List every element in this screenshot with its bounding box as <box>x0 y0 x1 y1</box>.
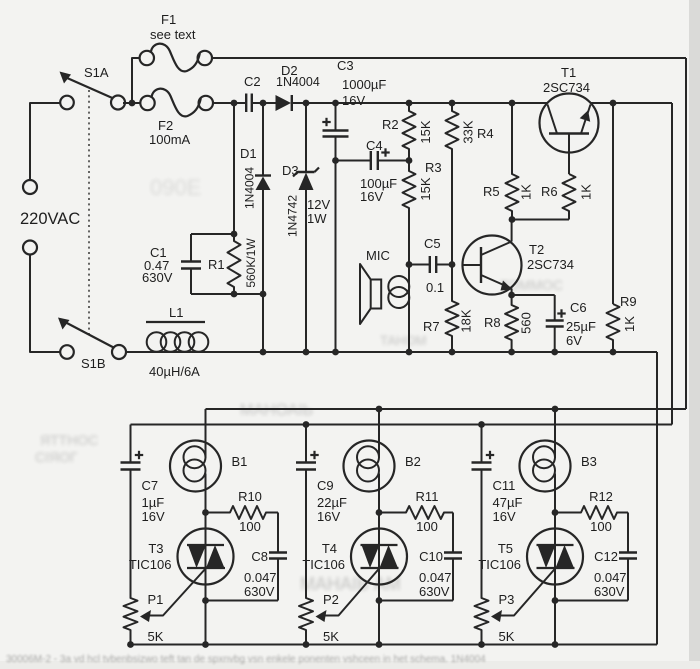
node junction <box>552 641 559 648</box>
microphone MIC speaker symbol <box>360 264 371 324</box>
svg-text:30006M-2 - 3a vd hcl tvbenbsiz: 30006M-2 - 3a vd hcl tvbenbsizwo teft ta… <box>6 654 486 665</box>
svg-text:T3: T3 <box>148 541 163 556</box>
svg-text:P2: P2 <box>323 592 339 607</box>
node junction <box>129 100 136 107</box>
svg-text:1K: 1K <box>579 184 594 200</box>
node junction <box>303 100 310 107</box>
svg-text:see text: see text <box>150 27 196 42</box>
resistor R2 <box>403 103 416 161</box>
node junction <box>376 641 383 648</box>
svg-text:0.047: 0.047 <box>244 570 277 585</box>
capacitor C1 <box>190 234 192 262</box>
svg-text:T4: T4 <box>322 541 337 556</box>
svg-text:R8: R8 <box>484 315 501 330</box>
node junction <box>231 100 238 107</box>
wire <box>130 470 132 598</box>
pot element <box>299 597 313 645</box>
resistor R7 <box>446 265 459 353</box>
svg-text:R11: R11 <box>416 489 439 504</box>
wire <box>262 190 264 352</box>
svg-text:B3: B3 <box>581 454 597 469</box>
resistor R3 <box>403 161 416 265</box>
wire control bus from DC supply <box>131 424 673 426</box>
svg-text:5K: 5K <box>323 629 339 644</box>
svg-text:22µF: 22µF <box>317 495 347 510</box>
node junction <box>610 100 617 107</box>
pot element <box>124 597 138 645</box>
wire <box>671 103 673 425</box>
node junction <box>406 261 413 268</box>
diode D3 zener <box>305 103 307 172</box>
svg-text:СІЯОГ: СІЯОГ <box>35 449 78 465</box>
thyristor T3 TIC106 <box>178 529 234 585</box>
svg-text:1K: 1K <box>519 184 534 200</box>
node junction <box>260 349 267 356</box>
capacitor C7 <box>121 461 141 463</box>
capacitor C6 <box>554 295 556 321</box>
lamp B1 <box>170 441 221 492</box>
svg-text:100: 100 <box>590 519 612 534</box>
inductor L1 <box>146 321 205 323</box>
node junction <box>260 291 267 298</box>
svg-text:18K: 18K <box>459 309 474 332</box>
capacitor C9 <box>296 461 316 463</box>
svg-text:T2: T2 <box>529 242 544 257</box>
wire bottom return bus <box>131 644 658 646</box>
svg-text:100: 100 <box>239 519 261 534</box>
node junction <box>552 406 559 413</box>
wire <box>305 190 307 352</box>
wire <box>191 233 234 235</box>
svg-text:560: 560 <box>519 312 534 334</box>
svg-text:1N4004: 1N4004 <box>276 75 320 89</box>
capacitor C10 <box>452 513 454 553</box>
wire <box>555 600 628 602</box>
wire <box>378 409 380 458</box>
potentiometer P1 5K <box>130 425 132 463</box>
wire lamp supply bus from F1 <box>206 408 687 410</box>
node junction <box>449 100 456 107</box>
svg-text:F1: F1 <box>161 12 176 27</box>
wire <box>233 103 235 234</box>
svg-text:МАНОАІЬ: МАНОАІЬ <box>240 402 313 419</box>
svg-text:12V: 12V <box>307 197 330 212</box>
wire main positive bus <box>292 102 548 104</box>
transistor T1 2SC734 <box>540 94 599 153</box>
wiper arrow of P3 to gate of T5 <box>499 567 557 616</box>
node junction <box>231 231 238 238</box>
node junction <box>376 597 383 604</box>
svg-text:F2: F2 <box>158 118 173 133</box>
svg-text:15K: 15K <box>418 177 433 200</box>
wire <box>132 58 140 103</box>
thyristor T5 TIC106 <box>527 529 583 585</box>
svg-text:C12: C12 <box>594 549 618 564</box>
svg-text:630V: 630V <box>142 270 173 285</box>
node junction <box>552 597 559 604</box>
svg-text:B2: B2 <box>405 454 421 469</box>
node 220VAC terminal upper <box>23 180 37 194</box>
node junction <box>376 406 383 413</box>
wire <box>512 219 569 221</box>
svg-text:6V: 6V <box>566 333 582 348</box>
wire <box>332 157 339 164</box>
node 220VAC terminal lower <box>23 241 37 255</box>
diode D2 <box>276 95 292 111</box>
wiper arrow of P1 to gate of T3 <box>148 567 207 616</box>
node junction <box>551 349 558 356</box>
capacitor C5 <box>409 264 430 266</box>
resistor R8 <box>505 295 518 352</box>
node junction <box>509 216 516 223</box>
svg-text:TIC106: TIC106 <box>478 557 521 572</box>
wire <box>206 600 279 602</box>
svg-text:630V: 630V <box>594 584 625 599</box>
svg-text:TIC106: TIC106 <box>129 557 172 572</box>
node junction <box>231 291 238 298</box>
svg-text:D1: D1 <box>240 146 257 161</box>
node junction <box>552 509 559 516</box>
svg-text:T5: T5 <box>498 541 513 556</box>
wire <box>252 102 276 104</box>
svg-text:47µF: 47µF <box>493 495 523 510</box>
wire common emitter rail <box>125 351 657 353</box>
node junction <box>303 641 310 648</box>
svg-text:5K: 5K <box>148 629 164 644</box>
wiper arrow of P2 to gate of T4 <box>324 567 381 616</box>
wire <box>123 102 140 104</box>
svg-text:1µF: 1µF <box>142 495 165 510</box>
pot element <box>475 597 489 645</box>
resistor R4 <box>446 103 459 265</box>
svg-text:2SC734: 2SC734 <box>527 257 574 272</box>
svg-text:C10: C10 <box>419 549 443 564</box>
wire <box>512 294 555 296</box>
potentiometer P3 5K <box>481 425 483 463</box>
svg-text:C6: C6 <box>570 300 587 315</box>
node junction <box>202 597 209 604</box>
svg-text:R2: R2 <box>382 117 399 132</box>
svg-text:ТОММОС: ТОММОС <box>500 277 563 293</box>
svg-text:1N4742: 1N4742 <box>286 195 300 237</box>
node junction <box>376 509 383 516</box>
resistor R1 <box>228 234 241 294</box>
svg-text:R7: R7 <box>423 319 440 334</box>
wire <box>305 470 307 598</box>
capacitor C2 <box>245 94 247 113</box>
svg-text:100: 100 <box>416 519 438 534</box>
svg-text:C8: C8 <box>251 549 268 564</box>
node junction <box>406 100 413 107</box>
resistor R12 <box>555 506 628 519</box>
svg-text:1W: 1W <box>307 211 327 226</box>
svg-text:0.047: 0.047 <box>419 570 452 585</box>
wire <box>591 102 672 104</box>
svg-text:16V: 16V <box>317 509 340 524</box>
svg-text:16V: 16V <box>142 509 165 524</box>
svg-text:T1: T1 <box>561 65 576 80</box>
svg-text:L1: L1 <box>169 305 183 320</box>
capacitor C8 <box>277 513 279 553</box>
transistor T2 2SC734 <box>463 236 522 295</box>
svg-text:630V: 630V <box>419 584 450 599</box>
svg-text:P3: P3 <box>499 592 515 607</box>
lamp B2 <box>344 441 395 492</box>
svg-text:1000µF: 1000µF <box>342 77 386 92</box>
wire <box>212 57 686 59</box>
svg-text:16V: 16V <box>342 93 365 108</box>
node junction <box>202 509 209 516</box>
node junction <box>332 100 339 107</box>
svg-text:33K: 33K <box>461 120 476 143</box>
node junction <box>610 349 617 356</box>
node junction <box>332 349 339 356</box>
resistor R9 <box>612 103 614 304</box>
svg-text:25µF: 25µF <box>566 319 596 334</box>
resistor R5 <box>506 103 519 220</box>
svg-text:C7: C7 <box>142 478 159 493</box>
diode D1 <box>262 103 264 176</box>
node junction <box>127 641 134 648</box>
wire <box>685 58 687 409</box>
resistor R10 <box>206 506 279 519</box>
fuse F2 <box>140 96 154 110</box>
svg-text:R3: R3 <box>425 160 442 175</box>
svg-text:S1A: S1A <box>84 65 109 80</box>
wire <box>205 409 207 458</box>
svg-text:R1: R1 <box>208 257 225 272</box>
wire <box>481 470 483 598</box>
svg-text:5K: 5K <box>499 629 515 644</box>
svg-text:R4: R4 <box>477 126 494 141</box>
svg-text:0.047: 0.047 <box>594 570 627 585</box>
capacitor C3 <box>335 103 337 131</box>
node junction <box>406 349 413 356</box>
svg-text:1K: 1K <box>622 316 637 332</box>
svg-text:220VAC: 220VAC <box>20 210 80 228</box>
svg-text:C11: C11 <box>493 478 516 493</box>
svg-text:S1B: S1B <box>81 356 106 371</box>
svg-text:C2: C2 <box>244 74 261 89</box>
fuse F1 <box>140 51 154 65</box>
capacitor C4 <box>336 160 371 162</box>
resistor R6 <box>563 174 576 220</box>
wire <box>379 600 453 602</box>
svg-text:C3: C3 <box>337 58 354 73</box>
svg-text:630V: 630V <box>244 584 275 599</box>
capacitor C12 <box>627 513 629 553</box>
thyristor T4 TIC106 <box>351 529 407 585</box>
node junction <box>449 261 456 268</box>
svg-text:P1: P1 <box>148 592 164 607</box>
switch S1B <box>60 345 74 359</box>
svg-text:MIC: MIC <box>366 248 390 263</box>
node junction <box>303 421 310 428</box>
svg-text:R5: R5 <box>483 184 500 199</box>
svg-text:R12: R12 <box>589 489 613 504</box>
svg-text:B1: B1 <box>232 454 248 469</box>
svg-text:16V: 16V <box>360 189 383 204</box>
svg-text:C9: C9 <box>317 478 334 493</box>
svg-text:ЯΤТНОС: ЯΤТНОС <box>40 432 98 448</box>
svg-text:C5: C5 <box>424 236 441 251</box>
wire <box>30 255 61 352</box>
svg-text:560K/1W: 560K/1W <box>244 238 258 288</box>
node junction <box>303 349 310 356</box>
potentiometer P2 5K <box>305 425 307 463</box>
svg-text:R6: R6 <box>541 184 558 199</box>
node junction <box>260 100 267 107</box>
svg-text:1N4004: 1N4004 <box>243 167 257 209</box>
resistor R11 <box>379 506 453 519</box>
svg-text:0.1: 0.1 <box>426 280 444 295</box>
svg-text:TIC106: TIC106 <box>302 557 345 572</box>
node junction <box>508 349 515 356</box>
svg-text:D3: D3 <box>282 163 299 178</box>
wire <box>191 293 263 295</box>
svg-text:15K: 15K <box>418 120 433 143</box>
svg-text:2SC734: 2SC734 <box>543 80 590 95</box>
wire <box>30 103 61 180</box>
node junction <box>508 292 515 299</box>
svg-text:090Ε: 090Ε <box>150 175 201 200</box>
capacitor C11 <box>472 461 492 463</box>
wire <box>554 409 556 458</box>
switch S1A <box>60 96 74 110</box>
wire <box>213 102 246 104</box>
wire gang dotted link S1A-S1B <box>88 90 90 336</box>
svg-text:R9: R9 <box>620 294 637 309</box>
svg-text:R10: R10 <box>238 489 262 504</box>
svg-text:100mA: 100mA <box>149 132 191 147</box>
node junction <box>202 641 209 648</box>
wire <box>656 352 658 645</box>
wire <box>408 265 410 353</box>
svg-text:16V: 16V <box>493 509 516 524</box>
node junction <box>406 157 413 164</box>
lamp B3 <box>520 441 571 492</box>
node junction <box>478 421 485 428</box>
svg-text:ТАНОМ: ТАНОМ <box>380 333 427 348</box>
node junction <box>478 641 485 648</box>
node junction <box>509 100 516 107</box>
svg-text:C4: C4 <box>366 138 383 153</box>
node junction <box>449 349 456 356</box>
svg-text:40µH/6A: 40µH/6A <box>149 364 200 379</box>
